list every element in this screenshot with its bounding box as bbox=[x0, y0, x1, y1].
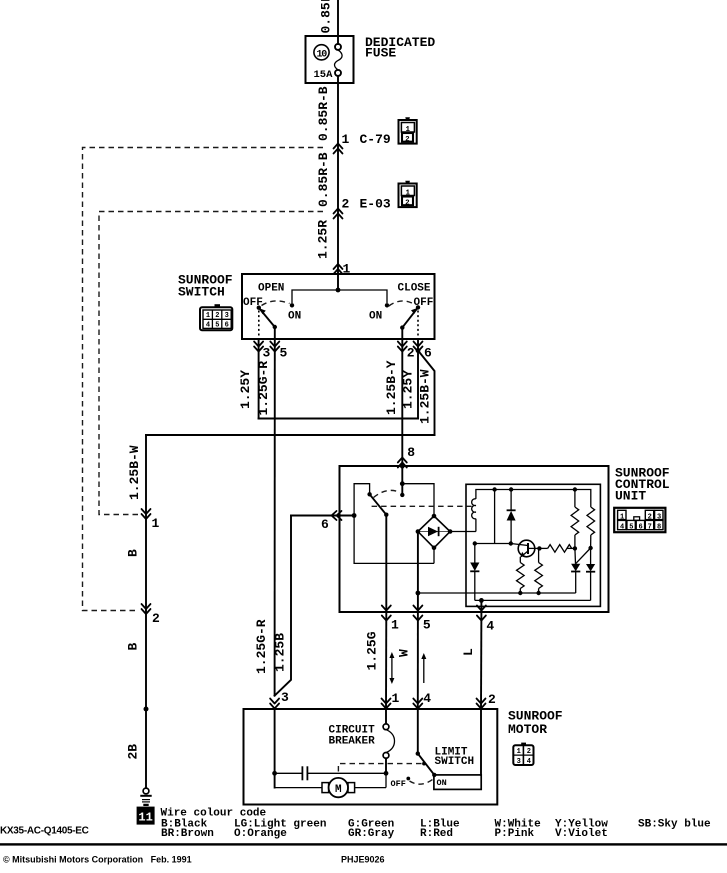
svg-text:2: 2 bbox=[405, 199, 410, 207]
svg-text:1.25G-R: 1.25G-R bbox=[254, 619, 269, 674]
svg-text:2: 2 bbox=[527, 748, 531, 756]
svg-text:1.25B-Y: 1.25B-Y bbox=[384, 360, 399, 415]
svg-text:5: 5 bbox=[629, 523, 633, 531]
wire 1.25Y switch pin3 to pin6 bbox=[238, 339, 420, 419]
svg-text:BREAKER: BREAKER bbox=[329, 736, 376, 748]
transistor Q1 bbox=[511, 540, 540, 562]
svg-text:FUSE: FUSE bbox=[365, 46, 396, 61]
diode bridge bbox=[416, 514, 476, 564]
svg-text:3: 3 bbox=[281, 690, 289, 705]
switch pin 5 bbox=[270, 342, 287, 361]
svg-text:B: B bbox=[126, 643, 141, 651]
svg-text:SB:Sky blue: SB:Sky blue bbox=[638, 819, 711, 831]
svg-text:E-03: E-03 bbox=[360, 197, 391, 212]
svg-text:SWITCH: SWITCH bbox=[178, 285, 225, 300]
wire W control unit pin5 to motor pin4 bbox=[396, 612, 426, 709]
svg-text:1: 1 bbox=[620, 513, 624, 521]
relay coil L1 bbox=[472, 499, 476, 532]
svg-text:2: 2 bbox=[648, 513, 652, 521]
svg-text:0.85L: 0.85L bbox=[319, 0, 334, 34]
svg-text:4: 4 bbox=[527, 758, 531, 766]
connector icon E-03 bbox=[399, 181, 417, 208]
control unit pin 5 exit bbox=[413, 606, 431, 633]
dedicated fuse F10 15A bbox=[306, 36, 354, 83]
wire colour code legend bbox=[161, 808, 712, 840]
circuit breaker bbox=[383, 709, 394, 773]
trigger lever diagonal bbox=[576, 548, 591, 564]
ground bbox=[140, 788, 151, 805]
motor M armature bbox=[275, 773, 386, 797]
svg-text:B: B bbox=[126, 549, 141, 557]
svg-text:L: L bbox=[461, 648, 476, 656]
svg-text:4: 4 bbox=[423, 691, 431, 706]
connector icon sunroof control unit 8-pin bbox=[614, 508, 665, 532]
svg-text:10: 10 bbox=[316, 49, 327, 60]
sunroof switch pin 1 arrow bbox=[334, 262, 351, 277]
svg-text:1: 1 bbox=[517, 748, 521, 756]
svg-text:1.25G: 1.25G bbox=[364, 631, 379, 670]
svg-text:P:Pink: P:Pink bbox=[495, 828, 535, 840]
svg-text:4: 4 bbox=[206, 322, 210, 330]
node 1 earth connector bbox=[142, 509, 160, 531]
control unit pin 8 contact stub bbox=[400, 466, 434, 516]
svg-text:8: 8 bbox=[657, 523, 661, 531]
dashed earth reference line to E-03 and node 1 bbox=[99, 212, 323, 515]
dashed mechanical link motor to limit switch bbox=[338, 762, 426, 772]
svg-text:6: 6 bbox=[321, 517, 329, 532]
wire 0.85L battery feed bbox=[319, 0, 339, 44]
diode D2 (down, under coil) bbox=[470, 544, 479, 601]
wire L control unit pin4 to motor pin2 bbox=[461, 612, 481, 709]
svg-text:5: 5 bbox=[280, 346, 288, 361]
diode D1 (up) bbox=[507, 490, 516, 544]
svg-text:1.25B: 1.25B bbox=[273, 633, 288, 672]
wire 1.25B-W switch pin6 to earth line bbox=[127, 351, 435, 789]
svg-text:OFF: OFF bbox=[414, 297, 434, 309]
svg-text:5: 5 bbox=[423, 618, 431, 633]
legend marker 11 bbox=[137, 807, 155, 825]
control unit pin 4 rail bbox=[475, 598, 591, 612]
svg-text:© Mitsubishi Motors Corporatio: © Mitsubishi Motors Corporation Feb. 199… bbox=[3, 855, 192, 865]
svg-text:2: 2 bbox=[405, 136, 410, 144]
svg-text:4: 4 bbox=[620, 523, 624, 531]
svg-text:OFF: OFF bbox=[391, 779, 406, 789]
svg-text:CLOSE: CLOSE bbox=[398, 283, 431, 295]
footer rule bbox=[0, 843, 727, 845]
wire 1.25B-Y switch pin2 to control unit pin8 bbox=[384, 339, 415, 469]
switch pin 2 bbox=[398, 342, 415, 361]
svg-text:3: 3 bbox=[225, 312, 229, 320]
connector icon sunroof switch 6-pin bbox=[200, 304, 232, 330]
svg-text:OPEN: OPEN bbox=[258, 283, 284, 295]
control unit pin 6 wire bbox=[291, 511, 357, 532]
diode D3 (down) bbox=[571, 564, 580, 593]
svg-text:C-79: C-79 bbox=[360, 132, 391, 147]
resistor R4 bbox=[571, 490, 579, 564]
wire 1.25G-R switch pin5 to motor pin3 bbox=[254, 339, 275, 696]
wire rail to base node bbox=[473, 490, 513, 546]
svg-text:4: 4 bbox=[486, 619, 494, 634]
internal supply rail bbox=[476, 487, 591, 507]
svg-text:1.25Y: 1.25Y bbox=[238, 370, 253, 409]
svg-text:0.85R-B: 0.85R-B bbox=[316, 152, 331, 207]
svg-text:3: 3 bbox=[657, 513, 661, 521]
motor pin 3 entry bbox=[270, 690, 289, 709]
node 2 earth connector bbox=[142, 604, 161, 626]
svg-text:MOTOR: MOTOR bbox=[508, 722, 547, 737]
svg-text:3: 3 bbox=[517, 758, 521, 766]
wire 1.25B control unit pin6 to motor pin3 bbox=[273, 516, 292, 696]
motor pin 1 entry bbox=[382, 691, 400, 709]
limit switch bbox=[406, 709, 481, 789]
connector icon C-79 bbox=[399, 117, 417, 144]
svg-text:6: 6 bbox=[225, 322, 229, 330]
switch pin 6 bbox=[414, 342, 433, 361]
connector icon sunroof motor 4-pin bbox=[513, 743, 533, 767]
control unit pin 1 wire bbox=[385, 515, 387, 612]
control unit pin 1 exit bbox=[382, 606, 399, 633]
svg-text:1.25B-W: 1.25B-W bbox=[127, 445, 142, 500]
motor branch left wire bbox=[272, 709, 277, 788]
svg-text:15A: 15A bbox=[314, 69, 334, 81]
svg-text:OFF: OFF bbox=[243, 297, 263, 309]
svg-text:1: 1 bbox=[206, 312, 210, 320]
svg-text:SWITCH: SWITCH bbox=[435, 756, 475, 768]
svg-text:3: 3 bbox=[263, 346, 271, 361]
svg-text:2: 2 bbox=[215, 312, 219, 320]
sunroof switch box bbox=[242, 274, 435, 339]
svg-text:8: 8 bbox=[407, 445, 415, 460]
switch CLOSE contact lever bbox=[389, 301, 420, 339]
svg-text:ON: ON bbox=[369, 311, 382, 323]
svg-text:UNIT: UNIT bbox=[615, 489, 646, 504]
resistor R3 (horizontal) bbox=[539, 545, 577, 553]
svg-text:11: 11 bbox=[138, 811, 152, 825]
resistor R5 bbox=[587, 507, 595, 550]
svg-text:ON: ON bbox=[437, 778, 447, 788]
sunroof motor box bbox=[244, 709, 498, 805]
wire 0.85R-B fuse to E-03 to sunroof switch bbox=[316, 76, 339, 274]
motor pin 4 entry bbox=[413, 691, 431, 709]
resistor R1 (emitter) bbox=[517, 563, 525, 596]
svg-text:2: 2 bbox=[342, 197, 350, 212]
svg-text:V:Violet: V:Violet bbox=[555, 828, 608, 840]
svg-text:2: 2 bbox=[152, 611, 160, 626]
svg-text:KX35-AC-Q1405-EC: KX35-AC-Q1405-EC bbox=[0, 826, 89, 837]
svg-text:0.85R-B: 0.85R-B bbox=[316, 86, 331, 141]
svg-text:PHJE9026: PHJE9026 bbox=[341, 855, 385, 865]
svg-text:1: 1 bbox=[152, 516, 160, 531]
capacitor C1 bbox=[275, 766, 389, 780]
control unit pin 5 wire bbox=[416, 532, 576, 613]
svg-text:O:Orange: O:Orange bbox=[234, 828, 287, 840]
svg-text:ON: ON bbox=[288, 311, 301, 323]
sunroof control unit box bbox=[340, 466, 609, 612]
svg-text:1: 1 bbox=[342, 132, 350, 147]
resistor R2 (collector load) bbox=[535, 546, 543, 595]
svg-text:1: 1 bbox=[392, 691, 400, 706]
dashed earth reference line to C-79 and node 2 bbox=[83, 148, 324, 611]
inner module box bbox=[466, 484, 600, 606]
switch pin 3 bbox=[254, 342, 270, 361]
sunroof switch internal feed bbox=[290, 274, 389, 307]
svg-text:M: M bbox=[335, 784, 342, 796]
wire 1.25G control unit pin1 to motor pin1 bbox=[364, 612, 394, 709]
svg-text:GR:Gray: GR:Gray bbox=[348, 828, 395, 840]
svg-text:2B: 2B bbox=[126, 744, 141, 760]
svg-text:R:Red: R:Red bbox=[420, 828, 453, 840]
junction on earth wire bbox=[144, 707, 149, 712]
svg-text:5: 5 bbox=[215, 322, 219, 330]
control unit pin 4 exit bbox=[477, 606, 495, 634]
svg-text:2: 2 bbox=[488, 692, 496, 707]
dashed mechanical link relay to coil bbox=[372, 505, 472, 507]
connector E-03 pin 2 bbox=[334, 197, 391, 219]
svg-text:1.25G-R: 1.25G-R bbox=[256, 361, 271, 416]
svg-text:BR:Brown: BR:Brown bbox=[161, 828, 214, 840]
svg-text:W: W bbox=[396, 649, 411, 657]
motor pin 2 entry bbox=[477, 692, 497, 709]
svg-text:1: 1 bbox=[391, 618, 399, 633]
diode D4 (down) bbox=[586, 548, 595, 600]
svg-text:1.25R: 1.25R bbox=[316, 220, 331, 259]
svg-text:1.25B-W: 1.25B-W bbox=[418, 369, 433, 424]
relay changeover switch bbox=[354, 484, 434, 564]
svg-text:6: 6 bbox=[639, 523, 643, 531]
svg-text:7: 7 bbox=[648, 523, 652, 531]
switch OPEN contact lever bbox=[257, 301, 290, 339]
connector C-79 pin 1 bbox=[334, 132, 391, 154]
